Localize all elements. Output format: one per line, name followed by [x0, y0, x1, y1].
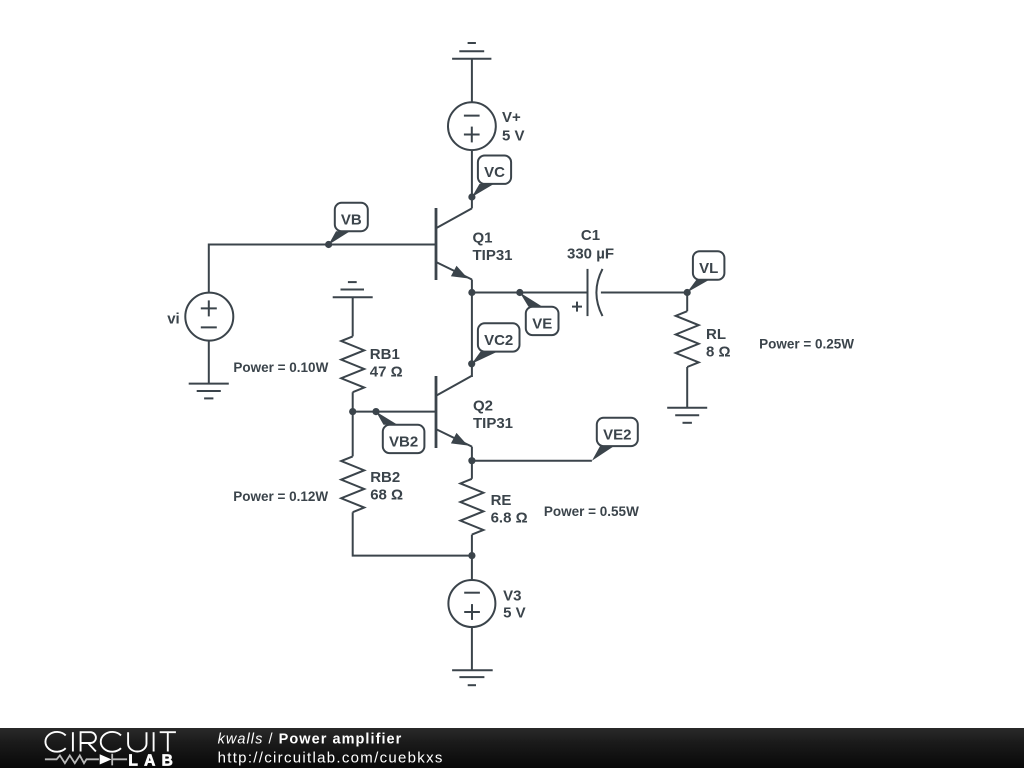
wire vi to ground [208, 341, 210, 384]
wire C1 to VL [601, 292, 687, 294]
voltage source vi [185, 293, 233, 341]
svg-text:TIP31: TIP31 [473, 415, 513, 432]
wire node VE horizontal (Q1 emitter to C1) [472, 292, 588, 294]
svg-text:330 µF: 330 µF [567, 246, 614, 263]
wire RL to ground [686, 367, 688, 408]
node VB2 [376, 412, 424, 453]
svg-text:Power = 0.55W: Power = 0.55W [544, 504, 639, 519]
ground (above RB1) [333, 282, 373, 297]
svg-text:VC2: VC2 [484, 332, 513, 349]
junction dot Q2 emitter [468, 457, 475, 464]
svg-text:LAB: LAB [128, 752, 179, 768]
svg-text:TIP31: TIP31 [473, 247, 513, 264]
svg-text:V+: V+ [502, 109, 521, 126]
svg-text:C1: C1 [581, 227, 600, 244]
svg-text:RL: RL [706, 326, 726, 343]
wire vi to Q1 base [209, 245, 436, 293]
wire node VE2 horizontal [472, 460, 592, 462]
capacitor C1 [572, 269, 603, 316]
node VE2 [592, 418, 638, 461]
wire Q1 emitter down [471, 280, 473, 293]
resistor RB2 [341, 456, 364, 512]
voltage source V3 [448, 580, 495, 627]
svg-text:RB2: RB2 [370, 469, 400, 486]
svg-text:RE: RE [491, 492, 512, 509]
svg-text:RB1: RB1 [370, 346, 400, 363]
svg-text:VE2: VE2 [603, 427, 631, 444]
wire RB1 to base node [352, 392, 354, 411]
svg-text:V3: V3 [503, 587, 521, 604]
svg-text:6.8 Ω: 6.8 Ω [491, 510, 528, 527]
wire ground to RB1 [352, 297, 354, 336]
svg-text:VC: VC [484, 164, 505, 181]
wire RB node to Q2 base [353, 411, 436, 413]
transistor Q2 [436, 376, 472, 448]
node VL [687, 251, 725, 292]
svg-text:5 V: 5 V [502, 128, 525, 145]
junction dot VE [516, 289, 523, 296]
junction dot VB [325, 241, 332, 248]
svg-text:http://circuitlab.com/cuebkxs: http://circuitlab.com/cuebkxs [218, 749, 444, 766]
wire RB2 to bottom rail [353, 512, 472, 555]
node VC2 [472, 323, 520, 364]
node VE [520, 293, 559, 336]
svg-text:VL: VL [699, 260, 718, 277]
svg-text:Power = 0.25W: Power = 0.25W [759, 337, 854, 352]
wire V3 to ground [471, 627, 473, 670]
junction dot VL [684, 289, 691, 296]
ground (top, above V+ source) [452, 43, 491, 59]
junction dot VB2 [372, 408, 379, 415]
svg-text:Q1: Q1 [473, 230, 493, 247]
wire VL to RL [686, 293, 688, 312]
voltage source V+ [448, 102, 496, 150]
svg-text:68 Ω: 68 Ω [370, 486, 403, 503]
transistor Q1 [436, 208, 472, 280]
node VB [329, 203, 368, 245]
ground (below V3) [452, 670, 493, 685]
wire rail to V3 [471, 556, 473, 581]
svg-text:VB: VB [341, 211, 362, 228]
CircuitLab logo CIRCUIT [45, 732, 175, 752]
wire VE node down to Q2 collector [471, 293, 473, 378]
wire RE bottom [471, 535, 473, 556]
junction dot at Q1 emitter [468, 289, 475, 296]
svg-text:Power = 0.10W: Power = 0.10W [233, 360, 328, 375]
ground (below vi) [189, 384, 229, 399]
wire Q2 emitter down [471, 447, 473, 461]
CircuitLab logo diode triangle [100, 754, 112, 764]
wire ground to V+ top [471, 59, 473, 103]
resistor RL [676, 311, 699, 367]
footer bar [0, 728, 1024, 768]
svg-text:5 V: 5 V [503, 605, 526, 622]
svg-text:Power = 0.12W: Power = 0.12W [233, 489, 328, 504]
svg-text:8 Ω: 8 Ω [706, 344, 731, 361]
wire RE top [471, 461, 473, 479]
wire RB2 junction [352, 412, 354, 457]
resistor RB1 [341, 336, 364, 392]
svg-text:VB2: VB2 [389, 434, 418, 451]
svg-text:47 Ω: 47 Ω [370, 364, 403, 381]
resistor RE [460, 479, 483, 535]
wire V+ bottom to Q1 collector [471, 150, 473, 208]
junction dot bottom rail [468, 552, 475, 559]
svg-text:vi: vi [167, 310, 180, 327]
svg-text:VE: VE [532, 315, 552, 332]
junction dot VC2 [468, 360, 475, 367]
svg-text:kwalls / Power amplifier: kwalls / Power amplifier [218, 732, 403, 748]
ground (below RL) [667, 408, 707, 423]
CircuitLab logo resistor-diode squiggle [45, 754, 127, 766]
svg-text:Q2: Q2 [473, 397, 493, 414]
node VC [472, 156, 511, 198]
junction dot VC [468, 193, 475, 200]
junction dot RB1/RB2 [349, 408, 356, 415]
